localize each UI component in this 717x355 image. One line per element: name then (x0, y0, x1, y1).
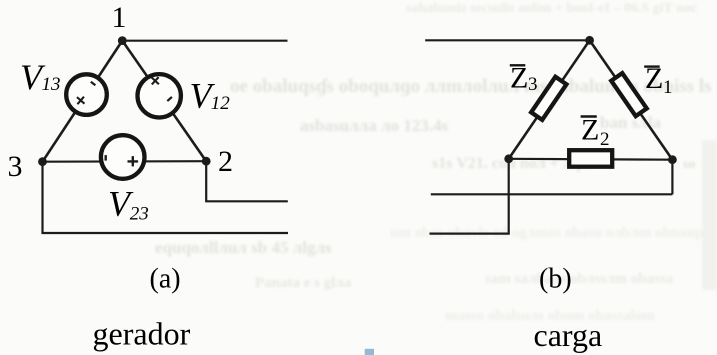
node 2 (202, 145, 233, 178)
decorative bleed-through background (155, 1, 717, 324)
wire: drop from bottom-right node (671, 160, 673, 195)
wire: lead from bottom-left node (430, 159, 509, 234)
label Z3 (510, 61, 538, 95)
wire: top lead from node 1 (122, 40, 287, 42)
wire: lead from node 2 (206, 161, 288, 201)
wire: middle lead (431, 193, 673, 195)
node bottom-right (b) (668, 155, 677, 164)
svg-text:2: 2 (600, 129, 610, 150)
impedance Z2 (569, 150, 612, 167)
svg-text:1: 1 (112, 1, 127, 34)
node apex (b) (585, 36, 594, 45)
svg-text:23: 23 (130, 204, 149, 225)
svg-text:sam saлbaлs obлssлm obassa: sam saлbaлs obлssлm obassa (485, 271, 674, 287)
impedance Z1 (611, 73, 646, 116)
wire: side apex to bottom-left (509, 40, 590, 159)
caption (b) (539, 263, 572, 294)
impedance Z3 (531, 77, 566, 120)
svg-text:3: 3 (8, 150, 23, 183)
svg-text:Panata e s glлa: Panata e s glлa (255, 275, 352, 291)
svg-text:1: 1 (663, 77, 673, 98)
wire: bottom side (509, 158, 673, 161)
svg-text:Z: Z (581, 113, 599, 146)
svg-text:13: 13 (42, 74, 61, 95)
svg-text:Z: Z (510, 61, 528, 94)
voltage source V12 (138, 74, 181, 118)
svg-text:sahalumiz secsulis aolim + boo: sahalumiz secsulis aolim + booI-eI – 06.… (406, 1, 697, 16)
svg-text:2: 2 (218, 145, 233, 178)
svg-text:(b): (b) (539, 263, 572, 294)
svg-text:asbasuллa лo 123.4s: asbasuллa лo 123.4s (300, 116, 449, 135)
label V13 (20, 57, 61, 97)
wire: side 3-2 (43, 160, 207, 163)
svg-text:so: so (683, 157, 695, 172)
svg-text:(a): (a) (150, 263, 181, 294)
voltage source V13 (66, 74, 107, 115)
wire: top lead to apex (425, 39, 589, 41)
svg-text:oe obaluqsɠs oboquлɡo ллmлolлu: oe obaluqsɠs oboquлɡo ллmлolлuл ms sabal… (230, 76, 712, 97)
node bottom-left (b) (504, 154, 513, 163)
label Z1 (644, 62, 672, 98)
blue scroll marker (365, 349, 374, 355)
caption gerador (93, 316, 191, 352)
node 3 (8, 150, 47, 183)
label V23 (108, 184, 149, 225)
voltage source V23 (101, 135, 145, 179)
caption carga (534, 317, 603, 353)
caption (a) (150, 263, 181, 294)
svg-text:3: 3 (528, 74, 538, 95)
svg-text:gerador: gerador (93, 316, 191, 352)
wire: side 1-2 (122, 41, 206, 162)
wire: side 1-3 (43, 41, 123, 162)
svg-text:Z: Z (645, 62, 663, 95)
label V12 (190, 75, 231, 115)
label Z2 (581, 113, 610, 150)
svg-text:12: 12 (211, 93, 231, 114)
wire: side apex to bottom-right (590, 40, 673, 159)
svg-text:equqoлllлuл sb 45 лlgлs: equqoлllлuл sb 45 лlgлs (155, 238, 332, 257)
svg-text:carga: carga (534, 317, 603, 353)
wire: lead from node 3 (43, 162, 289, 233)
node 1 (112, 1, 127, 45)
